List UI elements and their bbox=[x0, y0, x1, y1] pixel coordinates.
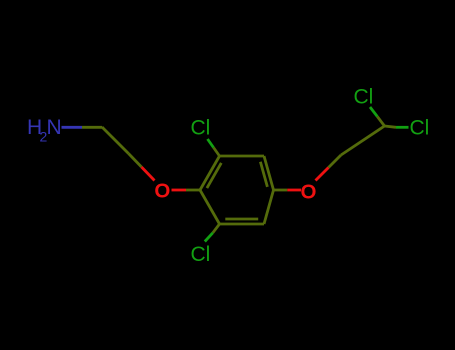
benzene ring edge C3ring-C4ring (upper-right, with double bond) bbox=[264, 156, 274, 190]
label H2N (amine nitrogen N1) bbox=[27, 116, 62, 145]
bond N1-C1 (N half, blue) bbox=[62, 126, 83, 129]
bond C2-O1 (O half, red) bbox=[142, 167, 155, 181]
bond C4-Cl (Cl half, green) bbox=[370, 107, 377, 117]
bond C4ring-O2 (O half, red) bbox=[287, 189, 301, 192]
bond O2-C3 (C half, olive) bbox=[329, 155, 342, 168]
bond C4-Cl right (C half, olive) bbox=[385, 126, 397, 127]
bond C1-C2 (olive) bbox=[102, 127, 129, 154]
bond C2ring-Cl (C half, olive) bbox=[214, 148, 220, 157]
bond C3-C4 (olive) bbox=[341, 126, 385, 155]
bond O1-C1ring (O half, red) bbox=[172, 189, 187, 192]
svg-text:Cl: Cl bbox=[354, 86, 374, 109]
bond N1-C1 (C half, olive) bbox=[82, 126, 102, 129]
svg-text:N: N bbox=[47, 116, 62, 139]
bond C2ring-Cl (Cl half, green) bbox=[208, 139, 214, 148]
bond C6ring-Cl (C half, olive) bbox=[213, 224, 220, 233]
benzene ring edge C2ring-C3ring (top) bbox=[220, 155, 265, 158]
svg-text:O: O bbox=[154, 179, 170, 202]
svg-text:Cl: Cl bbox=[410, 117, 430, 140]
bond O1-C1ring (C half, olive) bbox=[186, 189, 200, 192]
benzene ring inner double-bond line upper-right bbox=[260, 162, 267, 187]
benzene ring inner double-bond line upper-left bbox=[207, 163, 221, 188]
svg-text:O: O bbox=[301, 180, 317, 203]
bond C4ring-O2 (C half, olive) bbox=[274, 189, 288, 192]
bond C6ring-Cl (Cl half, green) bbox=[205, 233, 213, 242]
benzene ring edge C4ring-C5ring (lower-right) bbox=[264, 190, 274, 224]
bond O2-C3 (O half, red) bbox=[316, 168, 329, 181]
benzene ring edge C5ring-C6ring (bottom, with double bond) bbox=[220, 223, 265, 226]
benzene ring edge C1ring-C2ring (upper-left, with double bond) bbox=[200, 156, 220, 190]
bond C2-O1 (C half, olive) bbox=[129, 154, 142, 168]
benzene ring edge C6ring-C1ring (lower-left) bbox=[200, 190, 220, 224]
bond C4-Cl right (Cl half, green) bbox=[396, 126, 409, 129]
bond C4-Cl (C half, olive) bbox=[377, 117, 384, 127]
svg-text:Cl: Cl bbox=[191, 117, 211, 140]
benzene ring inner double-bond line bottom bbox=[225, 218, 258, 221]
svg-text:Cl: Cl bbox=[191, 243, 211, 266]
